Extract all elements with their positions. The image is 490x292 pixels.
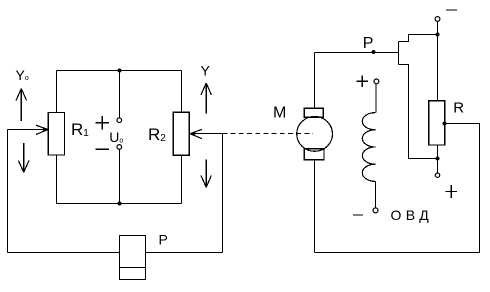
wire: R1 top lead <box>56 71 58 113</box>
node: R tap dot <box>443 122 447 126</box>
device P (reducer box) <box>120 236 146 280</box>
svg-text:Yo: Yo <box>16 67 29 83</box>
wire: Uo lower lead <box>119 149 121 203</box>
wiper arrow of R1 <box>36 125 48 134</box>
arrow right down <box>201 159 211 187</box>
node: bottom right junction dot <box>436 157 440 161</box>
terminal: top right circle <box>435 17 440 22</box>
svg-text:Р: Р <box>363 35 374 52</box>
wire: R2 top lead <box>181 71 183 113</box>
svg-text:R1: R1 <box>71 120 89 139</box>
svg-text:ОВД: ОВД <box>391 207 434 223</box>
wire: P box to right vertical <box>146 252 223 254</box>
svg-text:М: М <box>273 105 286 122</box>
wire: R top lead <box>437 35 439 101</box>
svg-text:R2: R2 <box>148 125 166 144</box>
polarity + of field winding <box>356 75 368 87</box>
regulator slider bar <box>398 42 400 65</box>
arrow left down <box>18 143 29 172</box>
wire: slider bottom branch <box>399 65 438 159</box>
wire: motor top lead <box>314 53 316 109</box>
wire: motor bottom lead <box>314 160 316 253</box>
node P dot <box>372 50 376 54</box>
wire: left feedback vertical <box>7 130 9 253</box>
resistor R body <box>429 101 445 145</box>
wire: field winding bottom lead <box>374 181 376 208</box>
terminal: Uo upper circle <box>117 118 122 123</box>
terminal: field winding top circle <box>374 79 379 84</box>
wire: top bus of bridge <box>57 70 182 72</box>
wire: dashed coupling from R2 wiper to motor shaft <box>223 133 314 135</box>
resistor R2 (potentiometer body) <box>173 112 189 155</box>
terminal: bottom right circle <box>435 173 439 177</box>
wire: R bottom lead <box>437 145 439 159</box>
wire: armature top bus <box>315 52 399 54</box>
terminal: field winding bottom circle <box>373 208 378 213</box>
svg-text:R: R <box>453 100 464 117</box>
wire: R2 wiper arm <box>191 133 225 135</box>
wire: right vertical of loop <box>479 124 481 253</box>
wire: Uo upper lead <box>119 71 121 118</box>
node: top junction dot <box>118 69 122 73</box>
polarity - of field winding <box>353 214 363 216</box>
wire: R2 bottom lead <box>181 156 183 204</box>
arrow Y up <box>201 83 211 113</box>
wire: bottom left to P box <box>8 252 120 254</box>
resistor R1 (potentiometer body) <box>48 113 64 156</box>
motor M top brush box <box>304 108 323 117</box>
polarity - top right <box>446 9 457 11</box>
terminal: Uo lower circle <box>117 145 122 150</box>
wire: field winding top lead <box>375 84 377 113</box>
device P divider <box>120 267 146 269</box>
polarity - of Uo <box>95 148 109 150</box>
wire: slider top branch <box>399 35 438 42</box>
arrow Yo up <box>16 89 27 121</box>
polarity + of Uo <box>95 116 109 130</box>
wiper arrow of R2 <box>190 129 202 138</box>
wire: R tap to right vertical <box>445 123 480 125</box>
svg-text:Р: Р <box>159 231 168 247</box>
wire: bottom bus right circuit <box>315 252 480 254</box>
wire: R1 bottom lead <box>56 155 58 204</box>
node: top right junction dot <box>436 33 440 37</box>
motor M armature circle <box>297 116 333 151</box>
motor M bottom brush box <box>304 149 324 160</box>
inductor OVD coil <box>362 113 375 182</box>
wire: right vertical to R2 wiper <box>222 134 224 253</box>
svg-text:Y: Y <box>201 62 211 78</box>
wire: bottom terminal lead <box>437 159 439 174</box>
node: bottom junction dot <box>118 202 122 206</box>
svg-text:Uo: Uo <box>109 129 123 145</box>
wire: top terminal lead <box>437 22 439 35</box>
polarity + bottom right <box>445 185 457 198</box>
wire: R1 wiper arm <box>8 129 46 131</box>
wire: bottom bus of bridge <box>57 203 182 205</box>
